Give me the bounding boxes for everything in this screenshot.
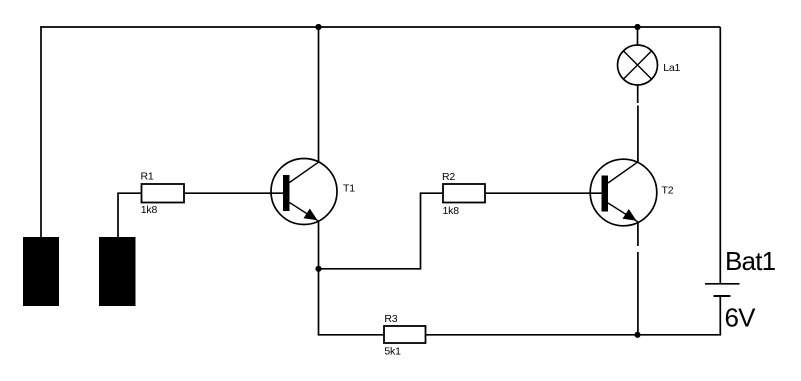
junction T1 emitter node [315,266,321,272]
transistor T2 [590,159,657,226]
transistor T1 [271,159,337,225]
wire probe2 to R1 [118,193,142,237]
wire T2 emitter down [637,222,639,335]
battery Bat1 [705,284,740,296]
resistor R3 [384,326,426,343]
wire emitter node down to R3 [319,269,385,335]
probe electrode 1 [23,237,59,306]
svg-text:6V: 6V [725,302,757,332]
probe electrode 2 [99,237,136,306]
junction top rail / T1 collector [315,24,321,30]
wire T1 collector to top rail [318,27,320,162]
wire bottom rail T2 node to R3 [426,334,638,336]
resistor R2 [443,184,485,203]
wire emitter node to R2 [319,193,444,269]
wire top rail to lamp [637,27,639,45]
svg-text:Bat1: Bat1 [725,246,776,276]
svg-text:1k8: 1k8 [141,204,158,216]
svg-text:R1: R1 [141,171,154,183]
svg-text:R2: R2 [442,171,455,183]
junction bottom rail / T2 emitter [634,332,640,338]
wire lamp to T2 collector [637,85,639,162]
junction top rail / lamp branch [634,24,640,30]
wire R1 to T1 base [184,192,283,194]
wire top rail [40,26,720,28]
resistor R1 [142,184,185,203]
svg-text:R3: R3 [384,313,397,325]
svg-text:5k1: 5k1 [384,345,401,357]
wire battery minus to bottom rail corner [638,296,721,335]
wire R2 to T2 base [485,192,602,194]
wire T1 emitter down [318,221,320,268]
svg-text:1k8: 1k8 [443,205,460,217]
lamp La1 [618,45,658,85]
svg-text:La1: La1 [663,62,680,74]
wire right rail [719,27,721,284]
wire left rail [40,26,42,237]
svg-text:T1: T1 [343,182,355,194]
svg-text:T2: T2 [662,185,674,197]
